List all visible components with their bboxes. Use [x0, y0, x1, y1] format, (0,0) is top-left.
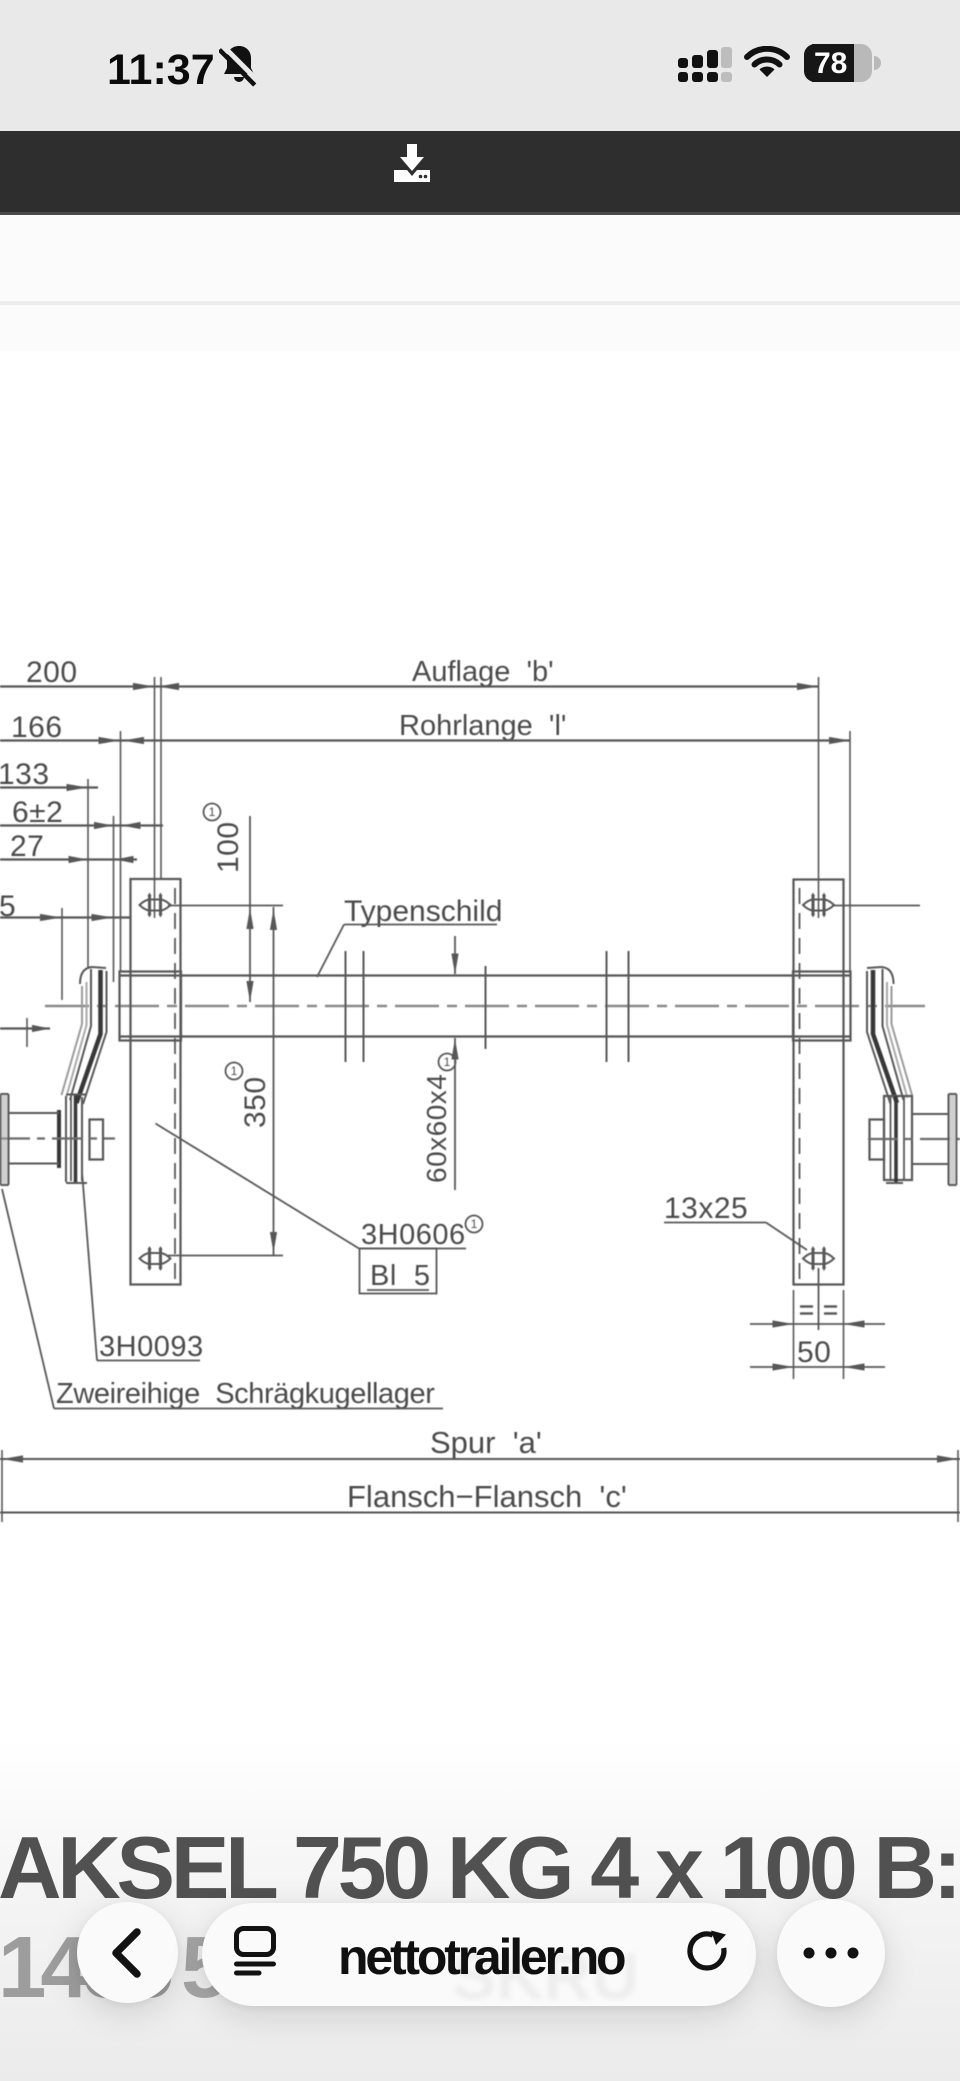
- svg-text:Flansch−Flansch 'c': Flansch−Flansch 'c': [347, 1479, 627, 1514]
- svg-text:1: 1: [471, 1217, 478, 1231]
- svg-text:3H0093: 3H0093: [99, 1331, 204, 1363]
- svg-text:6±2: 6±2: [12, 796, 63, 829]
- svg-text:Rohrlange 'l': Rohrlange 'l': [399, 710, 566, 742]
- svg-text:350: 350: [239, 1076, 272, 1128]
- svg-text:13x25: 13x25: [664, 1192, 748, 1225]
- svg-text:Spur 'a': Spur 'a': [430, 1425, 542, 1460]
- svg-text:Typenschild: Typenschild: [344, 895, 502, 928]
- svg-text:166: 166: [11, 711, 63, 744]
- svg-text:60x60x4: 60x60x4: [421, 1074, 452, 1183]
- svg-text:50: 50: [797, 1336, 831, 1369]
- svg-text:1: 1: [231, 1064, 238, 1078]
- svg-text:27: 27: [10, 830, 44, 863]
- svg-text:133: 133: [0, 758, 50, 791]
- svg-text:Bl 5: Bl 5: [370, 1260, 431, 1292]
- svg-text:1: 1: [444, 1055, 451, 1069]
- svg-text:100: 100: [212, 821, 245, 873]
- svg-text:1: 1: [209, 805, 216, 819]
- svg-text:Zweireihige Schrägkugellager: Zweireihige Schrägkugellager: [56, 1378, 435, 1410]
- svg-text:Auflage 'b': Auflage 'b': [412, 656, 554, 688]
- svg-text:200: 200: [26, 656, 78, 689]
- svg-text:3H0606: 3H0606: [361, 1219, 466, 1251]
